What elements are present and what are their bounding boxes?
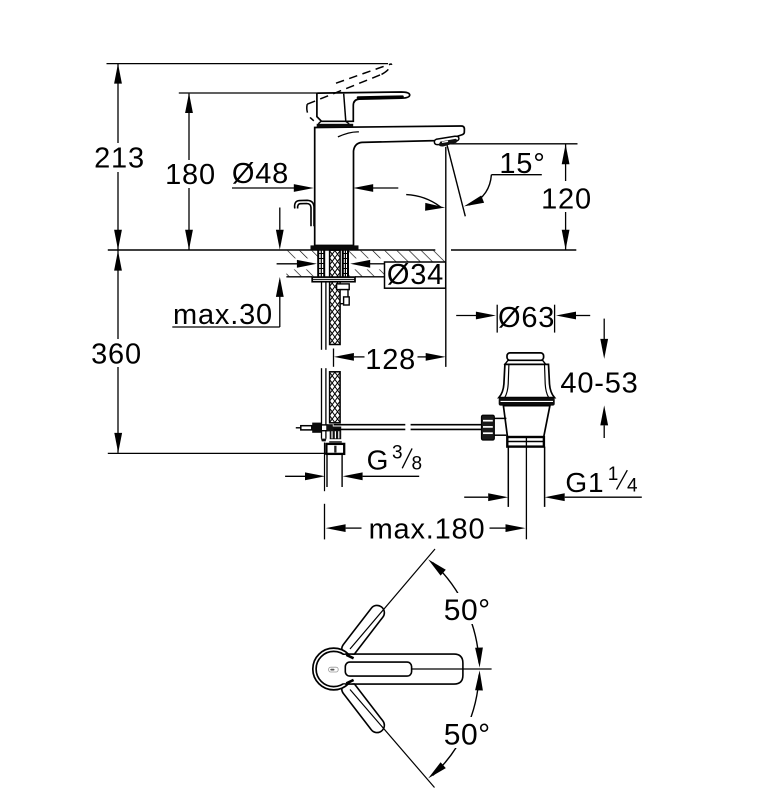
svg-text:180: 180 xyxy=(165,159,216,191)
svg-text:1: 1 xyxy=(608,464,619,485)
svg-text:40-53: 40-53 xyxy=(560,368,638,400)
svg-text:Ø63: Ø63 xyxy=(498,302,555,334)
svg-text:120: 120 xyxy=(541,184,592,216)
svg-text:G: G xyxy=(367,445,390,476)
svg-text:4: 4 xyxy=(627,475,638,496)
svg-text:Ø48: Ø48 xyxy=(232,158,289,190)
svg-text:max.180: max.180 xyxy=(369,514,486,546)
svg-text:8: 8 xyxy=(412,454,423,475)
svg-text:50°: 50° xyxy=(444,718,491,751)
svg-text:Ø34: Ø34 xyxy=(387,259,444,291)
svg-text:213: 213 xyxy=(94,143,145,175)
svg-text:360: 360 xyxy=(91,339,142,371)
svg-text:50°: 50° xyxy=(444,594,491,627)
svg-text:15°: 15° xyxy=(499,148,545,180)
svg-text:128: 128 xyxy=(365,344,416,376)
svg-text:G1: G1 xyxy=(565,467,604,498)
svg-text:3: 3 xyxy=(392,443,403,464)
svg-text:max.30: max.30 xyxy=(173,299,273,331)
